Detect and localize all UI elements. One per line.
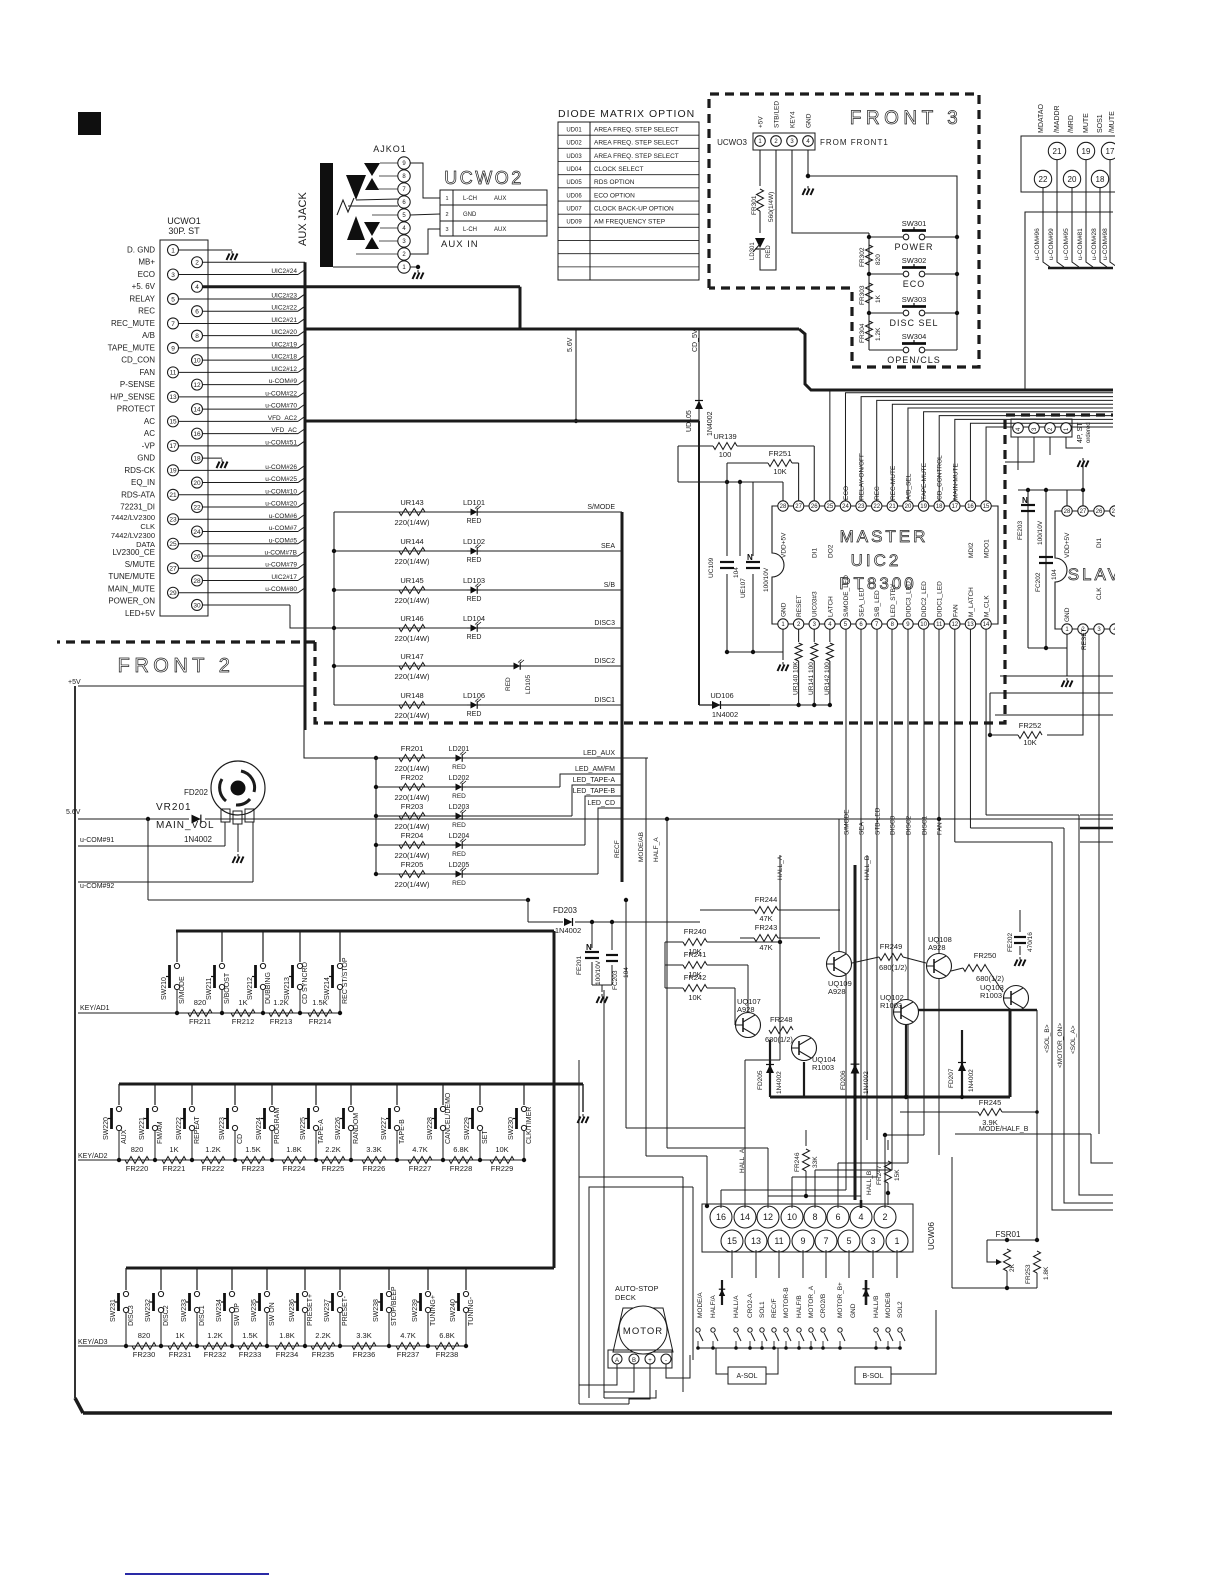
- svg-text:SW303: SW303: [902, 295, 927, 304]
- svg-text:25: 25: [827, 504, 834, 510]
- svg-text:17: 17: [1106, 147, 1115, 156]
- svg-text:SW304: SW304: [902, 332, 927, 341]
- svg-text:MDATAO: MDATAO: [1038, 104, 1045, 133]
- svg-text:AREA FREQ. STEP SELECT: AREA FREQ. STEP SELECT: [594, 153, 679, 160]
- svg-text:100/10V: 100/10V: [1037, 520, 1044, 545]
- svg-text:-VP: -VP: [142, 441, 155, 450]
- svg-text:<SOL_B>: <SOL_B>: [1044, 1024, 1051, 1053]
- svg-text:UCWO1: UCWO1: [167, 216, 201, 226]
- svg-text:DIDC2_LED: DIDC2_LED: [921, 581, 928, 617]
- svg-text:SW236: SW236: [289, 1299, 296, 1322]
- svg-text:SW231: SW231: [110, 1299, 117, 1322]
- svg-text:S/MUTE: S/MUTE: [125, 560, 155, 569]
- svg-text:FD206: FD206: [840, 1070, 847, 1090]
- svg-text:12: 12: [763, 1212, 773, 1222]
- svg-text:FR221: FR221: [163, 1164, 186, 1173]
- svg-text:CANCEL/DEMO: CANCEL/DEMO: [445, 1092, 452, 1144]
- svg-text:MAIN_VOL: MAIN_VOL: [156, 820, 215, 831]
- svg-text:9: 9: [800, 1236, 805, 1246]
- svg-text:FE202: FE202: [1007, 932, 1014, 952]
- svg-text:R1003: R1003: [980, 991, 1002, 1000]
- svg-text:UIC2#12: UIC2#12: [271, 366, 297, 373]
- svg-text:4: 4: [195, 284, 199, 291]
- svg-text:S/B: S/B: [604, 582, 616, 589]
- svg-text:/MADDR: /MADDR: [1054, 105, 1061, 133]
- svg-text:FR243: FR243: [755, 923, 778, 932]
- svg-text:470/16: 470/16: [1027, 932, 1034, 952]
- svg-text:u-COM#96: u-COM#96: [1034, 228, 1041, 260]
- svg-text:1: 1: [171, 247, 175, 254]
- svg-text:MASTER: MASTER: [840, 527, 929, 546]
- svg-text:20: 20: [1068, 175, 1077, 184]
- svg-text:TAPE-MUTE: TAPE-MUTE: [921, 462, 928, 500]
- svg-text:R1003: R1003: [880, 1001, 902, 1010]
- svg-text:MODE/AB: MODE/AB: [638, 832, 645, 862]
- svg-text:FD203: FD203: [553, 906, 578, 915]
- svg-text:220(1/4W): 220(1/4W): [394, 596, 430, 605]
- svg-text:DISC3: DISC3: [594, 620, 615, 627]
- svg-text:S/MODE_LED: S/MODE_LED: [843, 575, 850, 617]
- svg-text:17: 17: [169, 443, 177, 450]
- svg-text:CLK: CLK: [140, 522, 155, 531]
- svg-text:220(1/4W): 220(1/4W): [394, 822, 430, 831]
- svg-text:220(1/4W): 220(1/4W): [394, 764, 430, 773]
- svg-text:AUX: AUX: [494, 227, 506, 233]
- svg-text:STOP/BEEP: STOP/BEEP: [391, 1286, 398, 1326]
- svg-text:MOTOR-B: MOTOR-B: [783, 1287, 790, 1318]
- svg-text:CLK: CLK: [1096, 587, 1103, 600]
- svg-text:220(1/4W): 220(1/4W): [394, 672, 430, 681]
- svg-text:SEA_LED: SEA_LED: [859, 587, 866, 617]
- svg-text:SW233: SW233: [181, 1299, 188, 1322]
- svg-text:AREA FREQ. STEP SELECT: AREA FREQ. STEP SELECT: [594, 140, 679, 147]
- svg-text:16: 16: [716, 1212, 726, 1222]
- svg-text:UD07: UD07: [566, 207, 582, 213]
- svg-text:LED+5V: LED+5V: [125, 609, 156, 618]
- svg-text:RDS-ATA: RDS-ATA: [121, 490, 156, 499]
- svg-text:RED: RED: [452, 851, 466, 858]
- svg-text:UR147: UR147: [400, 652, 423, 661]
- svg-text:FR224: FR224: [283, 1164, 306, 1173]
- svg-text:26: 26: [193, 553, 201, 560]
- svg-text:220(1/4W): 220(1/4W): [394, 851, 430, 860]
- svg-text:27: 27: [169, 566, 177, 573]
- svg-text:REPEAT: REPEAT: [194, 1116, 201, 1144]
- svg-text:AUX: AUX: [121, 1129, 128, 1144]
- svg-text:S/B_LED: S/B_LED: [874, 590, 881, 617]
- svg-text:A-SOL: A-SOL: [736, 1373, 757, 1380]
- svg-text:17: 17: [951, 504, 958, 510]
- svg-text:UD06: UD06: [566, 193, 582, 199]
- svg-text:SW225: SW225: [300, 1117, 307, 1140]
- svg-text:UE107: UE107: [740, 578, 747, 598]
- svg-text:FR232: FR232: [204, 1350, 227, 1359]
- svg-text:9: 9: [171, 345, 175, 352]
- svg-text:UCW06: UCW06: [927, 1221, 936, 1250]
- svg-text:LD202: LD202: [449, 775, 470, 782]
- svg-text:1N4002: 1N4002: [776, 1071, 783, 1094]
- svg-text:MDO1: MDO1: [984, 539, 991, 558]
- svg-text:PRESET+: PRESET+: [307, 1294, 314, 1326]
- svg-text:RDS-CK: RDS-CK: [124, 466, 155, 475]
- svg-text:SOL2: SOL2: [897, 1301, 904, 1318]
- svg-text:SW212: SW212: [247, 977, 254, 1000]
- svg-text:220(1/4W): 220(1/4W): [394, 711, 430, 720]
- svg-text:2: 2: [882, 1212, 887, 1222]
- svg-text:4.7K: 4.7K: [412, 1145, 427, 1154]
- svg-text:FR236: FR236: [353, 1350, 376, 1359]
- svg-text:3: 3: [870, 1236, 875, 1246]
- svg-text:FR222: FR222: [202, 1164, 225, 1173]
- svg-text:3: 3: [445, 227, 448, 233]
- svg-text:VR201: VR201: [156, 802, 192, 813]
- svg-text:FR202: FR202: [401, 773, 424, 782]
- svg-text:UIC2#18: UIC2#18: [271, 354, 297, 361]
- svg-text:L-CH: L-CH: [463, 227, 477, 233]
- svg-text:13: 13: [751, 1236, 761, 1246]
- svg-text:DI1: DI1: [1096, 538, 1103, 549]
- svg-text:u-COM#80: u-COM#80: [265, 586, 297, 593]
- svg-text:UR144: UR144: [400, 537, 423, 546]
- svg-text:A928: A928: [828, 987, 846, 996]
- svg-text:RED: RED: [452, 793, 466, 800]
- svg-text:UIC2#21: UIC2#21: [271, 317, 297, 324]
- svg-text:SW227: SW227: [381, 1117, 388, 1140]
- svg-text:1N4002: 1N4002: [968, 1069, 975, 1092]
- svg-text:KEY/AD3: KEY/AD3: [78, 1339, 108, 1346]
- svg-text:1.2K: 1.2K: [273, 998, 288, 1007]
- svg-text:HALL/B: HALL/B: [873, 1296, 880, 1318]
- svg-text:SOS1: SOS1: [1097, 114, 1104, 133]
- svg-text:10K: 10K: [1023, 738, 1036, 747]
- svg-text:H/P_SENSE: H/P_SENSE: [110, 392, 155, 401]
- svg-text:u-COM#7: u-COM#7: [269, 525, 298, 532]
- svg-text:FC202: FC202: [1035, 572, 1042, 592]
- svg-text:REC-MUTE: REC-MUTE: [890, 465, 897, 500]
- svg-text:R1003: R1003: [812, 1063, 834, 1072]
- svg-text:18: 18: [936, 504, 943, 510]
- svg-text:DISC2: DISC2: [163, 1305, 170, 1326]
- svg-text:UD01: UD01: [566, 128, 582, 134]
- svg-text:S/MODE: S/MODE: [587, 504, 615, 511]
- svg-text:560(1/4W): 560(1/4W): [768, 192, 775, 222]
- svg-text:GND: GND: [781, 602, 788, 617]
- svg-text:REC/F: REC/F: [771, 1298, 778, 1318]
- svg-text:1.5K: 1.5K: [242, 1331, 257, 1340]
- svg-text:CD: CD: [237, 1134, 244, 1144]
- svg-text:2: 2: [195, 260, 199, 267]
- svg-text:FR235: FR235: [312, 1350, 335, 1359]
- svg-text:LD101: LD101: [463, 498, 485, 507]
- svg-text:LD203: LD203: [449, 804, 470, 811]
- svg-text:28: 28: [780, 504, 787, 510]
- svg-text:REC: REC: [874, 486, 881, 500]
- svg-text:MDI2: MDI2: [968, 542, 975, 558]
- svg-text:LV2300_CE: LV2300_CE: [112, 548, 155, 557]
- svg-text:6.8K: 6.8K: [439, 1331, 454, 1340]
- svg-text:12: 12: [951, 622, 958, 628]
- svg-text:VDD+5V: VDD+5V: [1064, 532, 1071, 558]
- svg-text:MOTOR: MOTOR: [623, 1326, 663, 1337]
- svg-text:CRO2/B: CRO2/B: [820, 1294, 827, 1318]
- svg-text:A: A: [615, 1358, 619, 1364]
- svg-text:FSR01: FSR01: [996, 1230, 1021, 1239]
- svg-text:TAPE-B: TAPE-B: [399, 1119, 406, 1144]
- svg-text:S/MODE: S/MODE: [179, 976, 186, 1004]
- svg-text:RED: RED: [467, 711, 482, 718]
- svg-text:FC203: FC203: [612, 970, 619, 990]
- svg-text:47K: 47K: [759, 943, 772, 952]
- svg-text:u-COM#70: u-COM#70: [265, 403, 297, 410]
- svg-text:AJKO1: AJKO1: [373, 144, 407, 154]
- svg-text:1.5K: 1.5K: [245, 1145, 260, 1154]
- svg-text:FR245: FR245: [979, 1098, 1002, 1107]
- svg-text:220(1/4W): 220(1/4W): [394, 634, 430, 643]
- svg-text:12: 12: [193, 382, 201, 389]
- svg-text:33K: 33K: [812, 1156, 819, 1168]
- svg-text:UD04: UD04: [566, 167, 582, 173]
- svg-text:M_CLK: M_CLK: [984, 595, 991, 617]
- svg-text:VFD_AC2: VFD_AC2: [268, 415, 298, 422]
- svg-text:820: 820: [194, 998, 207, 1007]
- svg-text:16: 16: [193, 431, 201, 438]
- svg-text:HALL/A: HALL/A: [733, 1295, 740, 1318]
- svg-text:u-COM#25: u-COM#25: [265, 476, 297, 483]
- svg-text:1.8K: 1.8K: [286, 1145, 301, 1154]
- svg-text:1.8K: 1.8K: [1043, 1266, 1050, 1280]
- svg-text:ordered: ordered: [1086, 422, 1092, 443]
- svg-text:DECK: DECK: [615, 1293, 636, 1302]
- svg-text:22: 22: [873, 504, 880, 510]
- svg-text:5: 5: [846, 1236, 851, 1246]
- svg-text:820: 820: [875, 254, 882, 265]
- svg-text:N: N: [747, 553, 753, 562]
- svg-text:TUNING-: TUNING-: [468, 1296, 475, 1326]
- svg-text:DI1: DI1: [812, 548, 819, 559]
- svg-text:AUX JACK: AUX JACK: [297, 192, 309, 246]
- svg-text:LD103: LD103: [463, 576, 485, 585]
- svg-text:104: 104: [1051, 569, 1058, 580]
- svg-text:CD_CONTROL: CD_CONTROL: [937, 455, 944, 500]
- svg-text:RED: RED: [505, 677, 512, 691]
- svg-text:SW301: SW301: [902, 219, 927, 228]
- svg-text:/MUTE: /MUTE: [1109, 111, 1116, 133]
- svg-text:SW ON: SW ON: [269, 1302, 276, 1326]
- svg-text:MB+: MB+: [138, 258, 155, 267]
- svg-text:1N4002: 1N4002: [863, 1071, 870, 1094]
- svg-text:RED: RED: [766, 245, 772, 258]
- svg-text:1.2K: 1.2K: [207, 1331, 222, 1340]
- svg-text:u-COM#10: u-COM#10: [265, 488, 297, 495]
- svg-text:POWER: POWER: [894, 242, 933, 252]
- svg-text:FR246: FR246: [794, 1152, 801, 1172]
- svg-text:KEY4: KEY4: [790, 111, 797, 128]
- svg-text:10: 10: [193, 358, 201, 365]
- svg-text:AUTO-STOP: AUTO-STOP: [615, 1284, 658, 1293]
- svg-text:1.5K: 1.5K: [312, 998, 327, 1007]
- svg-text:+5V: +5V: [68, 679, 81, 686]
- svg-text:FR303: FR303: [859, 285, 866, 305]
- svg-text:CLOCK SELECT: CLOCK SELECT: [594, 166, 644, 173]
- svg-text:5.6V: 5.6V: [66, 809, 81, 816]
- svg-text:14: 14: [740, 1212, 750, 1222]
- svg-text:PROTECT: PROTECT: [117, 405, 155, 414]
- svg-text:FR241: FR241: [684, 950, 707, 959]
- svg-text:SW222: SW222: [176, 1117, 183, 1140]
- svg-text:FR249: FR249: [880, 942, 903, 951]
- svg-text:DIDC1_LED: DIDC1_LED: [937, 581, 944, 617]
- svg-text:5: 5: [171, 296, 175, 303]
- svg-text:<MOTOR_ON>: <MOTOR_ON>: [1057, 1023, 1064, 1068]
- svg-text:u-COM#28: u-COM#28: [1091, 228, 1098, 260]
- svg-text:SW220: SW220: [103, 1117, 110, 1140]
- svg-text:DISC1: DISC1: [199, 1305, 206, 1326]
- svg-text:MODE/HALF_B: MODE/HALF_B: [979, 1126, 1029, 1133]
- svg-text:DO2: DO2: [827, 544, 834, 558]
- svg-text:FR251: FR251: [769, 449, 792, 458]
- svg-text:u-COM#7B: u-COM#7B: [264, 550, 297, 557]
- svg-text:FR237: FR237: [397, 1350, 420, 1359]
- svg-text:19: 19: [169, 468, 177, 475]
- svg-text:STB-LED: STB-LED: [875, 807, 882, 835]
- svg-text:FR242: FR242: [684, 973, 707, 982]
- svg-text:DIODE MATRIX OPTION: DIODE MATRIX OPTION: [558, 108, 695, 120]
- svg-text:UC109: UC109: [708, 557, 715, 578]
- svg-text:PRESET-: PRESET-: [342, 1295, 349, 1326]
- svg-text:DIDC3_LED: DIDC3_LED: [905, 581, 912, 617]
- svg-text:26: 26: [1096, 509, 1103, 515]
- svg-text:FR233: FR233: [239, 1350, 262, 1359]
- svg-text:REC: REC: [138, 307, 155, 316]
- svg-text:6.8K: 6.8K: [453, 1145, 468, 1154]
- svg-text:+5. 6V: +5. 6V: [132, 282, 156, 291]
- svg-text:DATA: DATA: [136, 540, 155, 549]
- svg-text:820: 820: [138, 1331, 151, 1340]
- svg-text:FM/AM: FM/AM: [157, 1121, 164, 1144]
- svg-text:27: 27: [1080, 509, 1087, 515]
- svg-text:6: 6: [195, 309, 199, 316]
- svg-text:+: +: [648, 1358, 652, 1364]
- svg-text:SW235: SW235: [251, 1299, 258, 1322]
- svg-text:CD_5V: CD_5V: [692, 329, 699, 352]
- svg-text:LED_TAPE-B: LED_TAPE-B: [573, 788, 616, 795]
- svg-text:FD207: FD207: [948, 1068, 955, 1088]
- svg-text:FR301: FR301: [751, 195, 758, 215]
- svg-text:13: 13: [967, 622, 974, 628]
- svg-text:AC: AC: [144, 417, 155, 426]
- svg-text:AM FREQUENCY STEP: AM FREQUENCY STEP: [594, 219, 665, 226]
- svg-text:MAIN-MUTE: MAIN-MUTE: [952, 463, 959, 500]
- svg-text:LD104: LD104: [463, 614, 485, 623]
- svg-text:FROM FRONT1: FROM FRONT1: [820, 138, 889, 147]
- svg-text:DISC3: DISC3: [128, 1305, 135, 1326]
- svg-text:DISC1: DISC1: [922, 815, 929, 835]
- svg-text:SW223: SW223: [219, 1117, 226, 1140]
- svg-text:18: 18: [193, 455, 201, 462]
- svg-text:GND: GND: [1064, 607, 1071, 622]
- svg-text:SW302: SW302: [902, 256, 927, 265]
- svg-text:30: 30: [193, 602, 201, 609]
- svg-text:LD201: LD201: [449, 746, 470, 753]
- svg-text:HALF/B: HALF/B: [796, 1295, 803, 1318]
- svg-text:15: 15: [727, 1236, 737, 1246]
- svg-text:10K: 10K: [773, 467, 786, 476]
- svg-text:SW221: SW221: [139, 1117, 146, 1140]
- svg-text:220(1/4W): 220(1/4W): [394, 880, 430, 889]
- svg-text:SW211: SW211: [206, 977, 213, 1000]
- svg-text:OPEN/CLS: OPEN/CLS: [887, 355, 941, 365]
- svg-text:RED: RED: [452, 822, 466, 829]
- svg-text:RESET: RESET: [796, 595, 803, 617]
- svg-text:REC_MUTE: REC_MUTE: [111, 319, 155, 328]
- svg-text:29: 29: [169, 590, 177, 597]
- svg-text:MODE/B: MODE/B: [885, 1292, 892, 1318]
- svg-text:FR230: FR230: [133, 1350, 156, 1359]
- svg-text:21: 21: [1053, 147, 1062, 156]
- svg-text:N: N: [1022, 496, 1028, 505]
- svg-text:u-COM#22: u-COM#22: [265, 390, 297, 397]
- svg-text:GND: GND: [850, 1303, 857, 1318]
- svg-text:A928: A928: [737, 1005, 755, 1014]
- svg-text:FR223: FR223: [242, 1164, 265, 1173]
- svg-text:LD102: LD102: [463, 537, 485, 546]
- svg-text:27: 27: [795, 504, 802, 510]
- svg-text:28: 28: [193, 578, 201, 585]
- svg-text:8: 8: [195, 333, 199, 340]
- svg-text:FR304: FR304: [859, 323, 866, 343]
- svg-text:10: 10: [920, 622, 927, 628]
- svg-text:KEY/AD2: KEY/AD2: [78, 1153, 108, 1160]
- svg-text:72231_DI: 72231_DI: [120, 503, 155, 512]
- svg-text:23: 23: [858, 504, 865, 510]
- svg-text:20: 20: [905, 504, 912, 510]
- svg-text:S/BOOST: S/BOOST: [224, 972, 231, 1004]
- svg-text:u-COM#20: u-COM#20: [265, 501, 297, 508]
- svg-text:15K: 15K: [894, 1169, 901, 1181]
- svg-text:FAN: FAN: [937, 822, 944, 835]
- svg-text:UIC2: UIC2: [851, 551, 902, 570]
- svg-text:u-COM#6: u-COM#6: [269, 513, 298, 520]
- svg-text:FR204: FR204: [401, 831, 424, 840]
- svg-text:TUNING+: TUNING+: [430, 1295, 437, 1326]
- svg-text:680(1/2): 680(1/2): [879, 963, 907, 972]
- svg-text:LD301: LD301: [750, 242, 756, 260]
- svg-text:8: 8: [812, 1212, 817, 1222]
- svg-text:23: 23: [169, 517, 177, 524]
- svg-text:15: 15: [169, 419, 177, 426]
- svg-text:A928: A928: [928, 943, 946, 952]
- svg-text:FR205: FR205: [401, 860, 424, 869]
- svg-text:DISC1: DISC1: [594, 697, 615, 704]
- svg-text:B-SOL: B-SOL: [862, 1373, 883, 1380]
- svg-text:KEY/AD1: KEY/AD1: [80, 1005, 110, 1012]
- svg-text:u-COM#98: u-COM#98: [1102, 228, 1109, 260]
- svg-text:ECO OPTION: ECO OPTION: [594, 192, 635, 199]
- svg-text:UIC2#17: UIC2#17: [271, 574, 297, 581]
- svg-text:UIC2#20: UIC2#20: [271, 329, 297, 336]
- svg-text:STB/LED: STB/LED: [774, 101, 781, 128]
- svg-text:GND: GND: [137, 454, 155, 463]
- svg-text:FR227: FR227: [409, 1164, 432, 1173]
- svg-text:UD02: UD02: [566, 141, 582, 147]
- svg-text:FR238: FR238: [436, 1350, 459, 1359]
- svg-text:UR145: UR145: [400, 576, 423, 585]
- svg-text:FR250: FR250: [974, 951, 997, 960]
- svg-text:UD03: UD03: [566, 154, 582, 160]
- svg-text:SW234: SW234: [216, 1299, 223, 1322]
- svg-text:LED_TAPE-A: LED_TAPE-A: [573, 777, 616, 784]
- svg-text:UIC2#23: UIC2#23: [271, 292, 297, 299]
